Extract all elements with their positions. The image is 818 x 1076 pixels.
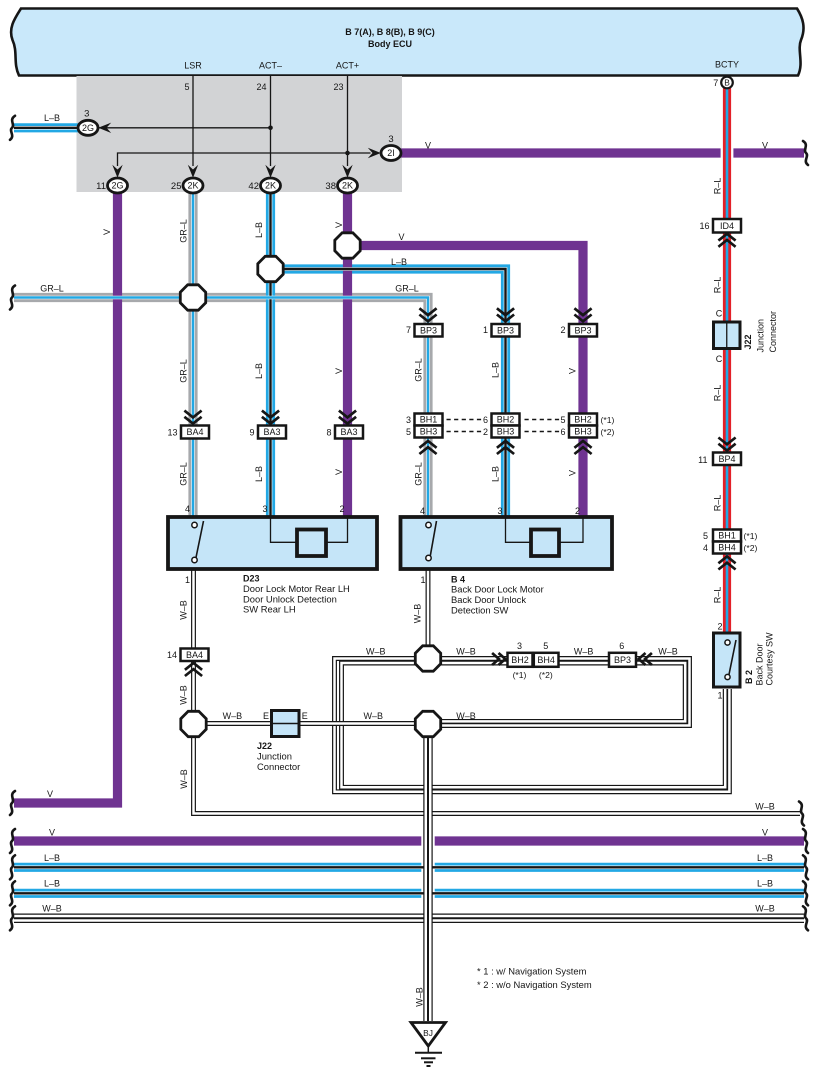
svg-text:2I: 2I	[387, 148, 395, 158]
svg-text:3: 3	[406, 415, 411, 425]
connector 2K pin42	[261, 178, 281, 193]
svg-text:2G: 2G	[82, 123, 94, 133]
svg-text:W–B: W–B	[223, 711, 243, 721]
svg-text:Courtesy SW: Courtesy SW	[765, 632, 775, 686]
connector BH1 pin5	[713, 530, 741, 542]
wire R-L ID4 to J22	[723, 233, 731, 323]
chevron below BH3 pin6	[574, 441, 591, 454]
torn edge bus L-B1 right	[803, 855, 808, 879]
svg-text:24: 24	[256, 82, 266, 92]
connector BH2 pin6	[492, 414, 520, 426]
svg-text:(*2): (*2)	[744, 543, 758, 553]
svg-text:BJ: BJ	[423, 1028, 433, 1038]
svg-text:BH4: BH4	[537, 655, 555, 665]
ECU Body ECU box	[11, 9, 803, 76]
svg-text:W–B: W–B	[456, 711, 476, 721]
svg-text:W–B: W–B	[179, 769, 189, 789]
torn edge W-B line right	[799, 802, 804, 826]
svg-text:2: 2	[560, 325, 565, 335]
svg-text:W–B: W–B	[179, 685, 189, 705]
svg-text:GR–L: GR–L	[179, 219, 189, 243]
svg-text:V: V	[334, 368, 344, 374]
svg-text:11: 11	[698, 455, 707, 465]
wire R-L BCTY to ID4	[723, 88, 731, 219]
svg-text:L–B: L–B	[757, 853, 773, 863]
svg-text:BH2: BH2	[497, 415, 515, 425]
chevron below BH3 pin5	[419, 441, 436, 454]
wire R-L BP4 to BH1	[723, 465, 731, 530]
svg-text:BH2: BH2	[574, 415, 592, 425]
wire V branch	[348, 246, 584, 518]
svg-text:3: 3	[388, 134, 393, 145]
chevron into BP3 pin7	[419, 308, 436, 321]
ground hatching	[427, 1046, 429, 1053]
chevron into BA3 pin8	[339, 411, 356, 424]
svg-text:V: V	[47, 789, 53, 799]
wire L-B branch stripe	[271, 269, 506, 517]
svg-text:3: 3	[84, 108, 89, 119]
wire GR-L branch stripe	[14, 298, 428, 518]
motor square D23	[297, 530, 326, 557]
svg-text:1: 1	[420, 575, 425, 585]
connector BP3 pin7	[415, 324, 443, 337]
svg-text:11: 11	[96, 181, 106, 192]
hop gap on V at R-L	[721, 147, 734, 158]
svg-text:BA3: BA3	[263, 427, 280, 437]
ground BJ triangle	[411, 1023, 446, 1047]
wire L-B branch main	[271, 269, 506, 517]
torn edge bus W-B left	[10, 906, 15, 930]
svg-text:V: V	[762, 141, 768, 151]
svg-text:13: 13	[167, 427, 177, 437]
svg-text:D23: D23	[243, 573, 260, 583]
svg-text:2: 2	[717, 621, 722, 631]
chevron into BA3 pin9	[262, 411, 279, 424]
svg-text:Connector: Connector	[768, 311, 778, 353]
svg-text:V: V	[334, 469, 344, 475]
torn edge GR-L left	[10, 286, 15, 310]
svg-text:GR–L: GR–L	[395, 284, 419, 294]
svg-text:23: 23	[333, 82, 343, 92]
svg-text:3: 3	[497, 506, 502, 516]
svg-text:V: V	[762, 828, 768, 838]
dashes BH3-BH3	[447, 431, 482, 433]
svg-text:Connector: Connector	[257, 761, 300, 772]
chevron into ID4	[718, 234, 735, 247]
wire V from 2K-38	[343, 192, 352, 517]
connector BH2 pin3 chain	[508, 653, 533, 667]
svg-text:BP3: BP3	[614, 655, 631, 665]
junction octagon GR-L	[180, 285, 205, 310]
switch in D23	[196, 521, 204, 558]
svg-text:8: 8	[326, 427, 331, 437]
hop gap on buses at ground wire	[421, 835, 434, 899]
arrow into 2K-42	[265, 165, 275, 178]
bus wire W-B pair	[14, 914, 804, 919]
svg-text:BH3: BH3	[574, 427, 592, 437]
svg-text:BA4: BA4	[186, 650, 203, 660]
svg-text:2K: 2K	[187, 181, 198, 191]
svg-text:3: 3	[262, 504, 267, 514]
svg-text:LSR: LSR	[184, 61, 202, 71]
svg-text:5: 5	[543, 641, 548, 651]
svg-text:W–B: W–B	[366, 647, 386, 657]
internal wiring shade box	[77, 76, 403, 192]
svg-text:6: 6	[560, 427, 565, 437]
svg-text:B 2: B 2	[744, 670, 754, 684]
svg-text:* 2 : w/o Navigation System: * 2 : w/o Navigation System	[477, 979, 592, 990]
svg-text:6: 6	[483, 415, 488, 425]
junction connector J22 right	[714, 322, 741, 349]
svg-text:R–L: R–L	[713, 178, 723, 195]
svg-text:1: 1	[717, 690, 722, 700]
svg-text:L–B: L–B	[391, 257, 407, 267]
svg-text:Body ECU: Body ECU	[368, 39, 412, 49]
wire R-L BH4 to B2	[723, 554, 731, 634]
junction dot ACT+ branch	[345, 151, 350, 156]
svg-text:ACT+: ACT+	[336, 61, 359, 71]
svg-text:5: 5	[184, 82, 189, 92]
connector BP3 pin6 chain	[609, 653, 636, 667]
chain chevron right	[492, 653, 505, 665]
torn edge L-B stub	[10, 116, 15, 140]
junction octagon W-B row2	[415, 711, 440, 736]
svg-text:L–B: L–B	[254, 466, 264, 482]
chevron into BP4	[718, 438, 735, 451]
svg-text:E: E	[263, 711, 269, 721]
wire L-B from 2K-42	[266, 192, 275, 517]
svg-text:7: 7	[713, 78, 718, 88]
dashes BH1-BH2	[447, 419, 482, 421]
svg-text:Junction: Junction	[756, 319, 766, 353]
wire to 2I-3	[118, 153, 371, 166]
wire ACT+ pin 23	[347, 76, 349, 166]
connector BA3 pin9	[258, 426, 286, 439]
svg-text:BP3: BP3	[420, 325, 437, 335]
svg-text:3: 3	[517, 641, 522, 651]
svg-text:(*2): (*2)	[539, 670, 553, 680]
svg-text:R–L: R–L	[713, 495, 723, 512]
svg-text:L–B: L–B	[757, 879, 773, 889]
svg-text:GR–L: GR–L	[179, 359, 189, 383]
chevron into BP3 pin2	[574, 308, 591, 321]
wire W-B ground loop inner	[342, 663, 726, 787]
svg-text:ID4: ID4	[720, 221, 734, 231]
connector BA4 pin14	[181, 649, 209, 662]
svg-text:Back Door Unlock: Back Door Unlock	[451, 594, 526, 605]
component B2 box	[714, 633, 741, 687]
svg-text:BH3: BH3	[420, 427, 438, 437]
wire W-B B4 pin1 to junction	[426, 569, 431, 647]
bus wire L-B lower	[14, 889, 804, 898]
wire V from 2G-11	[14, 192, 118, 803]
bus L-B upper stripe	[14, 865, 804, 869]
connector BA3 pin8	[335, 426, 363, 439]
connector ID4 pin16	[713, 219, 741, 233]
junction connector J22 lower	[272, 711, 300, 737]
svg-text:2K: 2K	[342, 181, 353, 191]
svg-text:W–B: W–B	[658, 647, 678, 657]
connector 2K pin38	[338, 178, 358, 193]
svg-text:R–L: R–L	[713, 385, 723, 402]
pin circle B BCTY	[721, 77, 733, 89]
bus wire L-B upper	[14, 863, 804, 872]
torn edge bus L-B1 left	[10, 855, 15, 879]
connector BH4 pin5 chain	[534, 653, 559, 667]
dashes BH2-BH2	[525, 419, 561, 421]
svg-text:L–B: L–B	[44, 113, 60, 123]
chevron below BA4 pin14	[185, 663, 202, 676]
svg-text:5: 5	[560, 415, 565, 425]
svg-text:W–B: W–B	[574, 647, 594, 657]
connector BH3 pin2	[492, 426, 520, 438]
svg-text:14: 14	[167, 650, 177, 660]
svg-text:W–B: W–B	[755, 904, 775, 914]
svg-text:BP3: BP3	[497, 325, 514, 335]
svg-text:Junction: Junction	[257, 751, 292, 762]
svg-text:ACT–: ACT–	[259, 61, 282, 71]
wire LSR pin 5	[192, 76, 194, 166]
junction octagon L-B	[258, 256, 283, 281]
chevron below BH3 pin2	[497, 441, 514, 454]
connector BA4 pin13	[181, 426, 209, 439]
connector BH1 pin3	[415, 414, 443, 426]
motor bracket D23	[271, 517, 348, 542]
connector 2I pin3	[381, 146, 401, 161]
svg-text:BH1: BH1	[718, 531, 736, 541]
svg-text:W–B: W–B	[42, 904, 62, 914]
connector 2G pin3	[78, 120, 98, 135]
svg-text:W–B: W–B	[413, 604, 423, 624]
svg-text:2: 2	[575, 506, 580, 516]
svg-text:38: 38	[325, 181, 336, 192]
wire R-L J22 to BP4	[723, 349, 731, 453]
switch in B4	[430, 521, 437, 558]
svg-text:C: C	[716, 354, 723, 364]
svg-text:9: 9	[249, 427, 254, 437]
arrow into 2I-3	[368, 148, 381, 158]
svg-text:2G: 2G	[111, 181, 123, 191]
junction octagon V	[335, 233, 360, 258]
svg-text:BH3: BH3	[497, 427, 515, 437]
svg-text:SW Rear LH: SW Rear LH	[243, 604, 296, 615]
svg-text:4: 4	[703, 543, 708, 553]
svg-text:5: 5	[406, 427, 411, 437]
bus L-B lower stripe	[14, 891, 804, 895]
svg-text:(*1): (*1)	[744, 531, 758, 541]
svg-text:BH1: BH1	[420, 415, 438, 425]
svg-text:J22: J22	[257, 741, 272, 751]
svg-text:V: V	[49, 828, 55, 838]
svg-text:7: 7	[406, 325, 411, 335]
arrow into 2K-25	[188, 165, 198, 178]
svg-text:(*2): (*2)	[601, 427, 615, 437]
chain chevron left	[639, 653, 652, 665]
connector BH3 pin6	[569, 426, 597, 438]
wire GR-L branch main	[14, 298, 428, 518]
connector 2K pin25	[183, 178, 203, 193]
svg-text:L–B: L–B	[44, 879, 60, 889]
chevron into BP3 pin1	[497, 308, 514, 321]
svg-text:W–B: W–B	[456, 647, 476, 657]
svg-text:Back Door: Back Door	[754, 643, 764, 685]
svg-text:5: 5	[703, 531, 708, 541]
junction octagon W-B left	[181, 711, 206, 736]
svg-text:L–B: L–B	[254, 363, 264, 379]
svg-text:1: 1	[483, 325, 488, 335]
svg-text:42: 42	[248, 181, 259, 192]
motor bracket B4	[506, 517, 584, 542]
motor square B4	[531, 530, 559, 557]
svg-text:4: 4	[420, 506, 425, 516]
component D23 box	[168, 517, 377, 569]
svg-text:E: E	[302, 711, 308, 721]
svg-text:BH2: BH2	[511, 655, 529, 665]
wire to 2G-3	[99, 127, 271, 129]
torn edge V stub left	[10, 791, 15, 815]
svg-text:2K: 2K	[265, 181, 276, 191]
svg-text:L–B: L–B	[254, 222, 264, 238]
svg-text:BCTY: BCTY	[715, 60, 739, 70]
svg-text:L–B: L–B	[491, 362, 501, 378]
connector BP3 pin1	[492, 324, 520, 337]
torn edge bus V right	[803, 829, 808, 853]
component B4 box	[401, 517, 613, 569]
svg-text:V: V	[568, 368, 578, 374]
arrow into 2K-38	[342, 165, 352, 178]
bus wire V	[14, 836, 804, 845]
torn edge V top right	[803, 141, 808, 165]
wire W-B junction row via J22	[206, 721, 414, 726]
wire W-B pair to ground	[423, 736, 428, 1021]
chevron into BA4 pin13	[184, 411, 201, 424]
svg-text:GR–L: GR–L	[414, 462, 424, 486]
svg-text:* 1 : w/ Navigation System: * 1 : w/ Navigation System	[477, 966, 587, 977]
chevron below BH4 right	[718, 557, 735, 570]
torn edge bus L-B2 left	[10, 881, 15, 905]
junction dot ACT- branch	[268, 126, 273, 131]
svg-text:BA4: BA4	[186, 427, 203, 437]
wire V from 2I-3	[401, 148, 805, 157]
connector BH3 pin5	[415, 426, 443, 438]
svg-text:C: C	[716, 308, 723, 318]
svg-text:6: 6	[619, 641, 624, 651]
dashes BH3-BH3 right	[525, 431, 561, 433]
svg-text:R–L: R–L	[713, 587, 723, 604]
wire W-B D23 pin1 to BA4-14	[191, 569, 196, 650]
torn edge bus L-B2 right	[803, 881, 808, 905]
svg-text:V: V	[102, 229, 112, 235]
svg-text:GR–L: GR–L	[414, 358, 424, 382]
svg-text:25: 25	[171, 181, 182, 192]
wire GR-L from 2K-25	[188, 192, 197, 517]
svg-text:(*1): (*1)	[513, 670, 527, 680]
svg-text:1: 1	[185, 575, 190, 585]
connector 2G pin11	[108, 178, 128, 193]
svg-text:2: 2	[339, 504, 344, 514]
svg-text:BH4: BH4	[718, 543, 736, 553]
svg-text:V: V	[334, 222, 344, 228]
svg-text:BP3: BP3	[574, 325, 591, 335]
svg-text:B 7(A), B 8(B), B 9(C): B 7(A), B 8(B), B 9(C)	[345, 27, 435, 37]
arrow into 2G-3	[98, 123, 111, 133]
svg-text:4: 4	[185, 504, 190, 514]
connector BH2 pin5	[569, 414, 597, 426]
svg-text:16: 16	[699, 221, 709, 231]
wire ACT- pin 24	[270, 76, 272, 166]
svg-text:V: V	[568, 470, 578, 476]
svg-text:W–B: W–B	[415, 987, 425, 1007]
wire W-B ground loop outer	[335, 659, 730, 792]
junction octagon W-B row1	[415, 646, 440, 671]
torn edge bus W-B right	[803, 906, 808, 930]
arrow into 2G-11	[112, 165, 122, 178]
svg-text:W–B: W–B	[755, 802, 775, 812]
switch in B2	[729, 640, 736, 675]
wire W-B junction to right torn edge	[194, 736, 801, 814]
connector BP3 pin2	[569, 324, 597, 337]
connector BP4 pin11	[713, 453, 741, 466]
svg-text:BP4: BP4	[718, 454, 735, 464]
svg-text:GR–L: GR–L	[40, 283, 64, 293]
wire L-B stub to 2G-3	[14, 123, 79, 132]
svg-text:V: V	[398, 232, 404, 242]
svg-text:V: V	[425, 141, 431, 151]
svg-text:L–B: L–B	[491, 466, 501, 482]
svg-text:W–B: W–B	[179, 600, 189, 620]
svg-text:Detection SW: Detection SW	[451, 604, 508, 615]
svg-text:J22: J22	[743, 334, 753, 349]
svg-text:B: B	[724, 78, 730, 88]
wire W-B BA4-14 to junction	[191, 660, 196, 712]
svg-text:GR–L: GR–L	[179, 462, 189, 486]
svg-text:L–B: L–B	[44, 853, 60, 863]
svg-text:BA3: BA3	[340, 427, 357, 437]
torn edge bus V left	[10, 829, 15, 853]
connector BH4 pin4	[713, 542, 741, 554]
svg-text:(*1): (*1)	[601, 415, 615, 425]
svg-text:R–L: R–L	[713, 277, 723, 294]
svg-text:W–B: W–B	[363, 711, 383, 721]
svg-text:2: 2	[483, 427, 488, 437]
